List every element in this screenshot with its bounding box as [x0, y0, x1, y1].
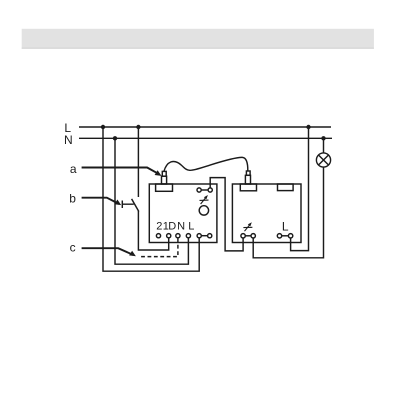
- device A terminal N: [186, 234, 190, 238]
- device A top notch: [156, 184, 173, 191]
- svg-text:a: a: [70, 162, 77, 176]
- node lamp-N junction: [321, 136, 325, 140]
- device A terminal L pair: [197, 234, 212, 238]
- title bar: [22, 29, 374, 49]
- device A sensor base: [162, 176, 167, 184]
- arrow b: [82, 198, 119, 204]
- arrow c: [82, 248, 134, 255]
- device A terminal 1: [167, 234, 171, 238]
- svg-text:L: L: [282, 219, 289, 233]
- device B terminal pair output: [241, 234, 255, 238]
- wire relay contact to device B terminal: [210, 178, 243, 251]
- switch S1 blade: [132, 199, 139, 212]
- wire N to terminal N of device A: [115, 138, 188, 264]
- device A relay contact pair: [197, 188, 212, 192]
- wire device B L terminal to mains L: [291, 127, 309, 251]
- device A indicator circle: [199, 206, 208, 215]
- svg-text:2: 2: [156, 221, 162, 233]
- svg-text:c: c: [70, 240, 76, 254]
- wire switch to terminal 1 of device A: [138, 211, 168, 250]
- wire L line: [79, 126, 331, 128]
- wire device B output to lamp: [253, 167, 323, 258]
- device B terminal pair L: [277, 234, 293, 238]
- device B top-left notch: [240, 184, 256, 191]
- node L-drop1 junction: [101, 125, 105, 129]
- device A box: [149, 184, 217, 243]
- switch S1 actuator: [122, 201, 134, 209]
- arrow a: [82, 168, 160, 175]
- wire sensor link (curvy): [164, 157, 248, 171]
- svg-text:N: N: [64, 133, 73, 147]
- device B box: [232, 184, 301, 243]
- wire N line: [79, 137, 332, 139]
- svg-text:b: b: [69, 192, 76, 206]
- svg-text:L: L: [188, 221, 194, 233]
- svg-text:D: D: [168, 221, 176, 233]
- device B actuation symbol: [243, 222, 252, 231]
- device A terminal D: [176, 234, 180, 238]
- device B top-right notch: [278, 184, 294, 191]
- wire L to switch S1: [137, 127, 139, 197]
- node L-drop-right junction: [306, 125, 310, 129]
- device B sensor pin: [246, 171, 250, 175]
- device A actuation symbol: [200, 195, 209, 204]
- wire lamp to N: [323, 138, 325, 153]
- node N-drop junction: [113, 136, 117, 140]
- wire dashed terminal D: [141, 238, 178, 256]
- wire L to terminal L of device A: [103, 127, 199, 271]
- device B sensor base: [245, 175, 250, 184]
- device A terminal 2: [156, 234, 160, 238]
- device A sensor pin: [162, 171, 166, 176]
- node switch-feed junction: [136, 125, 140, 129]
- svg-text:N: N: [177, 221, 185, 233]
- lamp E1: [316, 153, 330, 167]
